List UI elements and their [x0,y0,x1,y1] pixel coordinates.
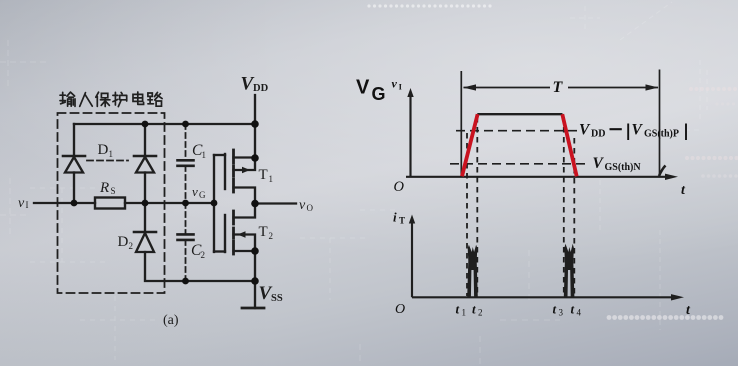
resistor RS [95,198,125,209]
svg-text:SS: SS [271,293,283,304]
svg-text:t: t [456,302,460,317]
svg-text:3: 3 [559,308,564,318]
capacitor C1 [178,124,194,203]
char ru (enter) [80,93,93,107]
svg-text:v: v [18,196,25,211]
dashed t2 line [476,117,478,296]
T arrow line [464,87,551,89]
transistor T1 (PMOS) [225,150,255,204]
diode D2 [134,203,156,252]
svg-text:v: v [299,198,306,213]
VSS terminal [254,281,256,308]
node bottom-rail/VSS [251,277,259,285]
label VGSthN [593,155,642,173]
svg-text:2: 2 [201,250,206,260]
svg-text:1: 1 [202,150,207,160]
arrow top y-axis [407,88,413,97]
arrow T left [463,84,476,90]
svg-text:V: V [593,155,605,172]
node top-rail/C1 [182,121,189,128]
wire T2 source to VSS rail [254,251,256,281]
graph text labels [356,77,691,319]
node T2 source [251,247,259,255]
node output [251,200,259,208]
svg-text:DD: DD [253,83,269,94]
transistor T2 (NMOS) [225,204,255,255]
axis top horizontal [406,176,672,178]
svg-text:V: V [579,122,591,139]
hook mark at boundary foot [659,166,666,177]
svg-text:D: D [118,234,129,250]
diode D1 right unit [134,124,156,203]
svg-text:2: 2 [129,241,134,251]
axis vI vertical [409,93,411,177]
svg-text:v: v [192,184,198,199]
dashed box input-protection [58,113,165,293]
svg-text:t: t [681,183,686,198]
svg-text:D: D [98,142,109,158]
svg-text:1: 1 [269,174,274,184]
arrow top x-axis [665,174,678,180]
wire bottom rail [145,252,255,281]
svg-text:1: 1 [109,149,114,159]
wire top rail [74,123,255,125]
circuit text labels [18,74,314,329]
svg-text:V: V [632,122,644,139]
label CJK input-protection-circuit (drawn strokes) [60,92,162,107]
label VDD - |VGSthP| [579,122,686,141]
char hu (guard) [113,92,127,106]
dashed link between D1 diodes [87,160,128,162]
node bottom-rail/C2 [182,278,189,285]
svg-text:T: T [399,216,405,226]
node top-rail/VDD [251,120,259,128]
svg-text:1: 1 [462,308,467,318]
pulse flat top [477,113,562,115]
svg-text:T: T [259,224,268,240]
char bao (protect) [96,92,110,106]
dashed t1 line [466,133,468,296]
capacitor C2 [178,203,194,281]
node vG gate [211,200,218,207]
axis iT vertical [411,219,413,297]
T-span right boundary [659,70,661,176]
arrow bottom x-axis [671,294,684,300]
svg-text:I: I [399,82,403,92]
char dian (electric) [133,92,144,104]
svg-text:T: T [259,167,268,183]
svg-text:DD: DD [591,129,605,140]
arrowheads [407,84,684,300]
svg-text:t: t [553,302,557,317]
svg-text:2: 2 [269,231,274,241]
wire output [255,202,296,204]
node top-rail/D1 [142,121,149,128]
node input/D1-left [71,200,78,207]
dashed level VDD-VGSthP [456,130,578,132]
svg-text:S: S [111,186,116,196]
iT spike pair t3t4 [564,244,575,297]
svg-text:t: t [472,302,476,317]
svg-text:G: G [199,190,206,200]
red waveform falling edge [562,114,576,176]
dashed t3 line [563,117,565,296]
junction dots [71,120,259,285]
T-span left boundary [460,71,462,176]
node input/D1-right [142,200,149,207]
arrow T right [646,84,659,90]
svg-text:O: O [307,203,314,213]
svg-text:O: O [395,302,405,317]
wire input line [34,202,95,204]
svg-text:GS(th)P: GS(th)P [644,129,679,140]
arrow bottom y-axis [409,215,415,224]
char shu (input) [60,92,75,106]
svg-text:4: 4 [577,308,582,318]
svg-text:I: I [26,200,29,210]
svg-text:t: t [571,302,575,317]
svg-text:G: G [372,84,386,104]
dashed t4 line [573,138,575,296]
axis bottom horizontal [412,296,679,298]
diode D1 left unit [63,124,85,203]
deco dotted rows [367,4,738,320]
svg-text:i: i [393,210,397,225]
svg-text:v: v [392,77,398,91]
red waveform rising edge [462,114,478,176]
iT spike pair t1t2 [467,245,478,297]
svg-text:T: T [553,79,564,96]
svg-text:R: R [99,180,109,196]
svg-text:2: 2 [478,308,483,318]
node vG/C-column [182,200,189,207]
wire gate feed [213,155,215,252]
svg-text:GS(th)N: GS(th)N [605,162,642,173]
char lu (circuit) [148,92,162,106]
wire VDD lead [254,95,256,158]
node T1 source [251,154,259,162]
dashed level VGSthN [450,163,590,165]
svg-text:O: O [394,179,405,195]
svg-text:t: t [686,303,691,318]
svg-text:(a): (a) [163,313,179,328]
wire input line right of RS [125,202,214,204]
svg-text:V: V [356,77,370,99]
